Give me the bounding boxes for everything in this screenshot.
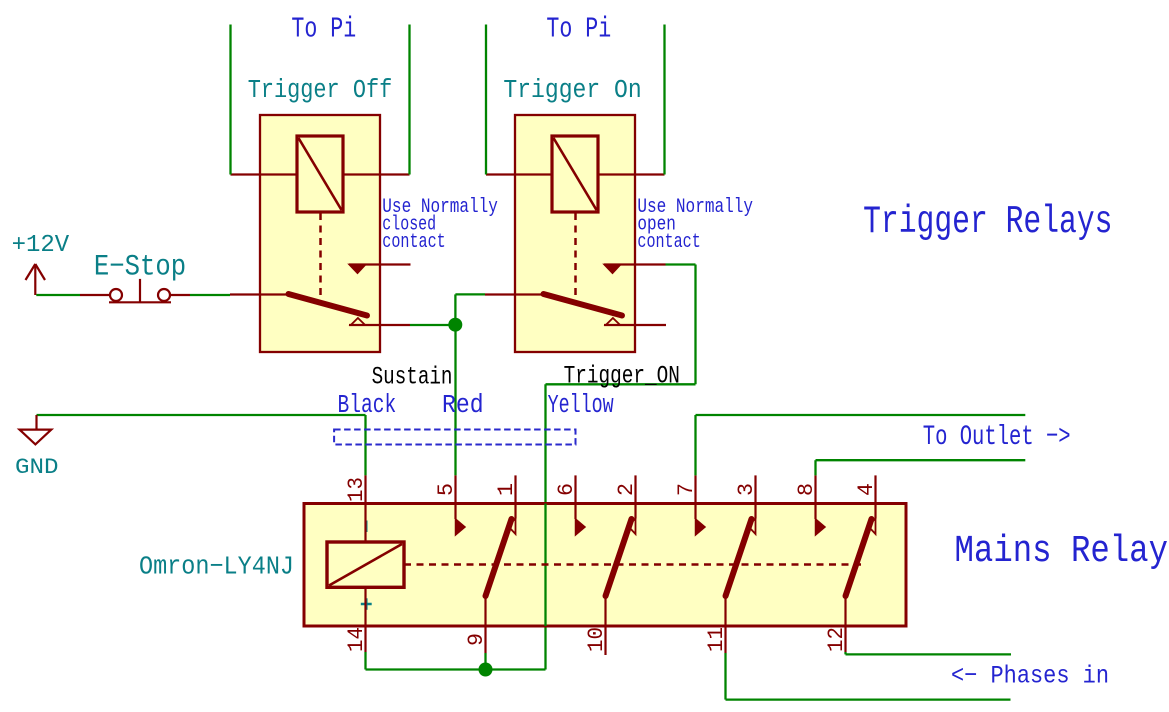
relay K3 body <box>304 504 906 627</box>
svg-text:E−Stop: E−Stop <box>94 250 186 283</box>
relay K1 NC contact <box>349 264 366 273</box>
wire <box>410 324 456 326</box>
relay K3 moving contact arm 9 <box>486 519 512 596</box>
relay K3 polarity minus <box>365 521 368 533</box>
junction <box>479 663 493 677</box>
svg-text:contact: contact <box>637 231 700 254</box>
relay K3 stationary contact pin 2 <box>634 475 636 518</box>
svg-text:Trigger Off: Trigger Off <box>248 75 393 105</box>
svg-text:2: 2 <box>613 483 639 496</box>
ground <box>35 415 37 430</box>
wire <box>364 652 366 670</box>
relay K1 actuator dashed link <box>319 213 322 296</box>
wire <box>724 653 726 700</box>
svg-text:8: 8 <box>793 483 819 496</box>
wire net Red down to pin 5 <box>454 325 456 475</box>
relay K1 coil <box>297 136 343 212</box>
svg-text:9: 9 <box>463 633 489 646</box>
relay K2 coil pin left <box>486 173 552 175</box>
wire to Pi right <box>663 25 665 175</box>
relay K3 NC contact pin 7 <box>694 475 696 519</box>
svg-text:1: 1 <box>493 483 519 496</box>
wire to Pi right <box>408 25 410 175</box>
svg-text:4: 4 <box>853 483 879 496</box>
relay K2 pivot <box>606 318 620 325</box>
junction <box>448 318 462 332</box>
wire net Trigger_ON <box>666 263 696 265</box>
relay K1 coil pin left <box>231 173 298 175</box>
relay K2 coil pin right <box>598 173 665 175</box>
svg-text:10: 10 <box>583 627 609 652</box>
relay K3 NC contact pin 6 <box>574 475 576 519</box>
wire <box>484 653 486 670</box>
svg-text:Trigger On: Trigger On <box>503 75 641 105</box>
relay K3 stationary contact pin 1 <box>514 475 516 518</box>
svg-text:Mains Relay: Mains Relay <box>955 530 1169 573</box>
relay K3 coil <box>327 542 404 587</box>
svg-text:Trigger Relays: Trigger Relays <box>863 200 1112 244</box>
svg-text:<− Phases in: <− Phases in <box>951 661 1109 690</box>
wire to Pi left <box>485 25 487 175</box>
svg-text:To Outlet −>: To Outlet −> <box>923 422 1071 453</box>
relay K3 coil pin 14 <box>364 587 366 652</box>
svg-text:GND: GND <box>15 454 59 480</box>
relay K3 stationary contact pin 4 <box>874 475 876 518</box>
relay K2 common pin <box>485 293 545 295</box>
svg-text:To Pi: To Pi <box>291 13 356 46</box>
wire <box>454 294 456 324</box>
svg-text:11: 11 <box>703 627 729 652</box>
svg-text:To Pi: To Pi <box>546 13 611 46</box>
relay K2 actuator dashed link <box>574 213 577 296</box>
wire <box>814 460 816 475</box>
svg-text:contact: contact <box>382 231 445 254</box>
relay K3 moving contact arm 10 <box>606 519 632 596</box>
relay K3 NC contact pin 5 <box>454 475 456 519</box>
wire to Pi left <box>229 25 231 175</box>
svg-text:Sustain: Sustain <box>372 362 453 391</box>
wire <box>190 294 230 296</box>
relay K2 NO contact <box>604 264 621 273</box>
wire net Black <box>37 414 366 416</box>
power symbol +12V <box>12 232 70 295</box>
svg-text:Red: Red <box>442 390 484 420</box>
relay K1 pivot <box>351 318 365 325</box>
svg-text:14: 14 <box>343 627 369 652</box>
wire net Yellow crossing body <box>544 504 546 627</box>
relay K3 polarity plus <box>361 603 372 606</box>
svg-text:Yellow: Yellow <box>548 390 614 420</box>
svg-text:7: 7 <box>673 483 699 496</box>
wire <box>694 415 696 475</box>
svg-text:+12V: +12V <box>12 232 70 259</box>
relay K3 stationary contact pin 3 <box>754 475 756 518</box>
relay K3 moving contact arm 11 <box>726 519 752 596</box>
wire <box>36 294 80 296</box>
svg-text:12: 12 <box>823 627 849 652</box>
svg-text:13: 13 <box>343 477 369 502</box>
relay K3 moving contact arm 12 <box>846 519 872 596</box>
relay K1 contact arm <box>289 294 368 316</box>
svg-text:Omron−LY4NJ: Omron−LY4NJ <box>139 552 294 582</box>
cable bundle dashed box <box>334 430 575 445</box>
relay K2 coil <box>552 136 598 212</box>
relay K1 coil pin right <box>343 173 410 175</box>
wire <box>844 652 846 654</box>
relay K3 coil dashed link <box>404 563 866 566</box>
relay K1 common pin <box>230 293 290 295</box>
svg-text:3: 3 <box>733 483 759 496</box>
relay K2 body <box>515 115 635 352</box>
relay K3 coil pin 13 <box>364 475 366 542</box>
svg-text:5: 5 <box>433 483 459 496</box>
relay K1 body <box>260 115 380 352</box>
relay K2 contact arm <box>544 294 623 316</box>
svg-text:Trigger_ON: Trigger_ON <box>564 362 680 391</box>
svg-text:6: 6 <box>553 483 579 496</box>
relay K3 NC contact pin 8 <box>814 475 816 519</box>
switch SW1 E-Stop <box>80 250 190 302</box>
